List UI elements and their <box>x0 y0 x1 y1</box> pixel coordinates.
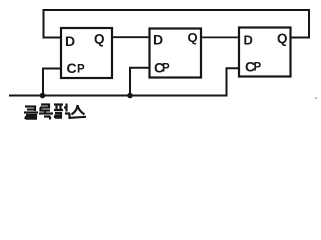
svg-text:P: P <box>162 63 170 75</box>
svg-text:Q: Q <box>94 32 105 47</box>
svg-text:P: P <box>77 63 85 75</box>
svg-text:P: P <box>254 62 262 74</box>
svg-text:Q: Q <box>188 30 198 45</box>
svg-text:D: D <box>244 32 253 47</box>
svg-text:D: D <box>65 33 75 49</box>
svg-text:Q: Q <box>277 31 288 46</box>
svg-text:C: C <box>67 60 77 76</box>
svg-text:D: D <box>153 31 163 47</box>
